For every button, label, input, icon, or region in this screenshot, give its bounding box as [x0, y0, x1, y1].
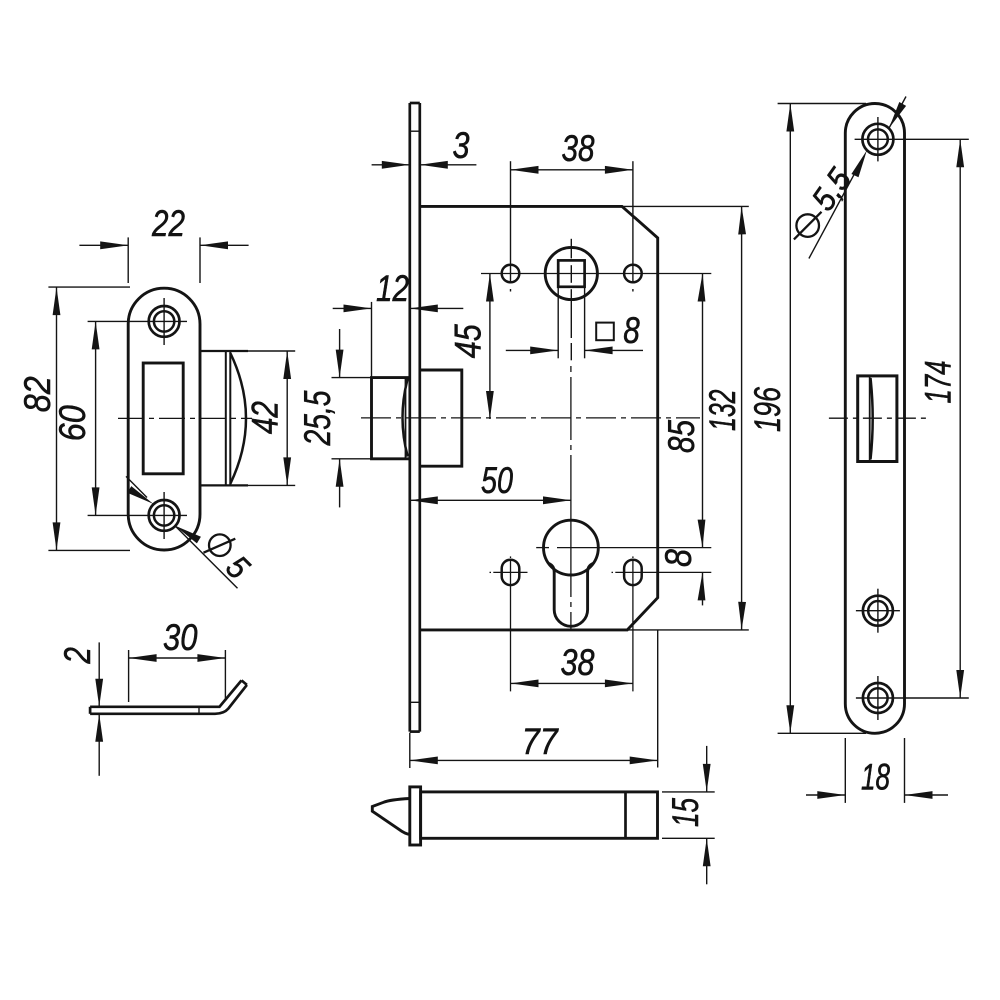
- dimension 60: [88, 321, 187, 515]
- right view latch slot: [858, 376, 897, 462]
- dimension 50: [410, 499, 571, 501]
- right view plate: [845, 104, 904, 734]
- euro cylinder hole: [544, 520, 599, 626]
- top screw post right: [624, 161, 642, 291]
- dimension 42: [286, 351, 288, 485]
- strike plate screw hole top: [149, 298, 180, 345]
- bent strip side view: [90, 680, 247, 713]
- leader diameter 5,5: [809, 97, 906, 259]
- right view top screw: [855, 117, 969, 161]
- case edge extension lines: [622, 206, 749, 767]
- svg-text:132: 132: [702, 389, 743, 431]
- oval screw slot left: [490, 556, 528, 691]
- dimension 132: [741, 206, 743, 630]
- latch bolt front view: [372, 378, 410, 459]
- right view slot centerline: [829, 417, 927, 419]
- svg-text:3: 3: [453, 125, 470, 166]
- dimension 77: [410, 733, 658, 768]
- dimension 38 bottom: [511, 682, 633, 684]
- svg-text:12: 12: [376, 268, 409, 309]
- top screw post left: [502, 161, 520, 291]
- dimension 30: [129, 650, 226, 702]
- svg-text:196: 196: [747, 387, 788, 432]
- dimension 25,5: [332, 329, 372, 507]
- latch housing box: [420, 370, 462, 466]
- lock case body: [420, 206, 658, 630]
- svg-text:18: 18: [861, 757, 890, 798]
- bolt side view body: [421, 792, 658, 838]
- svg-text:50: 50: [481, 460, 513, 501]
- label diameter 5,5: [796, 214, 819, 237]
- svg-text:38: 38: [562, 128, 595, 169]
- label diameter 5: [209, 534, 231, 556]
- strike plate rectangular hole: [143, 363, 183, 474]
- dimension 82: [48, 287, 130, 550]
- bolt side view faceplate section: [410, 787, 421, 845]
- dimension 22: [79, 237, 248, 283]
- lock faceplate (middle view): [410, 103, 420, 732]
- strike plate screw hole bottom: [149, 492, 180, 539]
- right view middle screw: [856, 589, 900, 633]
- dimension 8 right: [702, 572, 704, 605]
- strike plate outline: [128, 288, 200, 550]
- dimension 85: [702, 274, 704, 548]
- svg-text:85: 85: [661, 420, 702, 453]
- oval screw slot right: [612, 556, 712, 691]
- dimension square 8: [506, 287, 643, 359]
- svg-text:25,5: 25,5: [297, 390, 338, 446]
- dimension 174: [959, 139, 961, 698]
- dimension 2: [98, 642, 100, 775]
- svg-text:30: 30: [163, 617, 198, 658]
- svg-text:8: 8: [658, 549, 699, 567]
- svg-text:77: 77: [522, 721, 559, 762]
- cylinder vertical centerline: [570, 366, 572, 630]
- svg-text:8: 8: [623, 310, 640, 351]
- svg-text:22: 22: [151, 203, 185, 244]
- svg-text:60: 60: [52, 405, 93, 441]
- dimension 12: [333, 302, 464, 378]
- hub follower: [545, 239, 597, 360]
- dimension 15: [662, 746, 715, 884]
- dimension 18: [806, 738, 948, 803]
- dimension 3: [372, 164, 477, 166]
- svg-text:38: 38: [561, 642, 595, 683]
- dimension 38 top: [511, 169, 633, 171]
- svg-text:2: 2: [57, 647, 98, 665]
- strike plate centerline: [118, 417, 252, 419]
- main horizontal centerline: [361, 417, 700, 419]
- svg-text:42: 42: [245, 401, 286, 434]
- right view bottom screw: [856, 676, 969, 720]
- dimension 196: [778, 104, 866, 734]
- strike plate tab: [200, 351, 295, 485]
- svg-text:174: 174: [918, 361, 959, 404]
- svg-text:45: 45: [448, 324, 489, 358]
- leader diameter 5: [126, 476, 238, 588]
- cylinder horizontal centerline: [536, 547, 711, 549]
- bolt head wedge: [372, 799, 410, 835]
- svg-text:15: 15: [665, 798, 706, 827]
- hub horizontal centerline: [481, 273, 711, 275]
- dimension 45: [489, 274, 491, 420]
